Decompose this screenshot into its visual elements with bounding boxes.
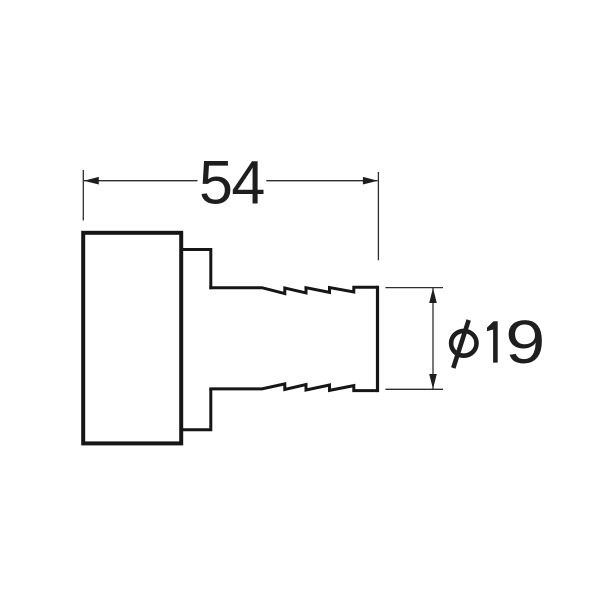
arrowhead top of diameter dimension [429, 288, 437, 303]
extension line left of 54 dimension [82, 170, 84, 221]
extension line bottom of diameter dimension [385, 388, 443, 390]
arrowhead right of 54 dimension [363, 177, 378, 185]
fitting flange body [83, 233, 181, 444]
dimension text digit 1 [487, 321, 498, 362]
dimension line 54 right segment [266, 180, 377, 182]
barb end face [376, 286, 379, 392]
barb top profile [209, 287, 377, 293]
extension line right of 54 dimension [377, 172, 379, 260]
svg-text:54: 54 [199, 149, 264, 217]
diameter symbol phi slash [453, 320, 468, 368]
arrowhead bottom of diameter dimension [429, 374, 437, 389]
dimension line 54 left segment [84, 180, 198, 182]
fitting neck step outline [181, 250, 211, 430]
extension line top of diameter dimension [385, 287, 443, 289]
dimension line diameter vertical [432, 288, 434, 389]
svg-text:9: 9 [505, 309, 545, 377]
barb bottom profile [209, 384, 377, 391]
arrowhead left of 54 dimension [84, 177, 99, 185]
diameter symbol phi circle [451, 331, 476, 356]
